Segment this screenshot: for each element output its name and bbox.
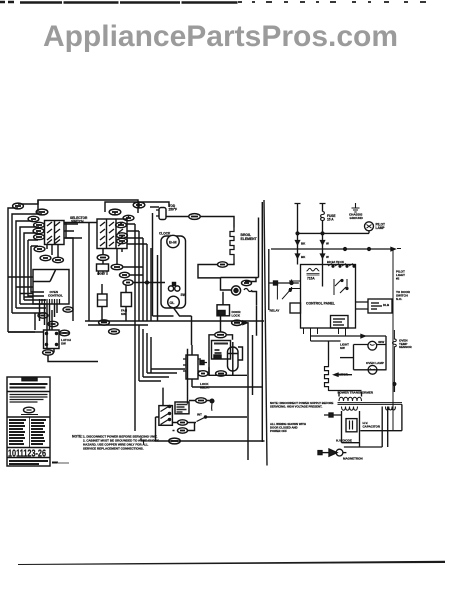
clock motor circle M1	[167, 235, 179, 247]
transformer secondary left	[342, 407, 358, 411]
svg-text:250°F: 250°F	[169, 208, 178, 212]
supply line L1	[295, 204, 301, 265]
drops from SW2 bottom	[103, 249, 122, 265]
wire: bottom bundle horizontals	[139, 369, 185, 381]
connector oval P10	[133, 202, 145, 208]
svg-text:SWITCH: SWITCH	[71, 220, 84, 224]
transformer secondary right	[386, 407, 396, 410]
terminal dot	[210, 399, 214, 403]
connector oval P5	[33, 228, 44, 233]
ignitor outer loop	[209, 335, 247, 376]
switch bank SW1 (selector)	[45, 221, 65, 245]
connector oval P4	[34, 222, 45, 227]
connector oval P19	[48, 321, 58, 326]
clock coil	[307, 268, 320, 271]
pilot lamp PL	[365, 222, 374, 231]
connector arrow L1-b	[296, 254, 300, 258]
right bus arrow	[391, 248, 395, 251]
svg-text:MAGNETRON: MAGNETRON	[343, 457, 363, 461]
svg-text:715A: 715A	[307, 277, 315, 281]
connector oval P8	[40, 255, 51, 260]
left strip components	[274, 281, 278, 285]
svg-text:CONTROL: CONTROL	[48, 294, 63, 298]
wire: extra nested bus	[28, 240, 44, 296]
schematic divider	[264, 200, 267, 466]
thermal fuse TOD	[150, 206, 159, 208]
connector oval P16	[189, 214, 201, 220]
igniter capsule	[228, 347, 239, 371]
wire: top row to bank 2	[105, 202, 139, 225]
motor coil symbol	[244, 289, 252, 292]
wire: bus bundle right of SW2	[135, 224, 151, 321]
svg-text:GROUND: GROUND	[350, 216, 364, 220]
svg-text:DLB: DLB	[383, 303, 390, 307]
wire mid joins	[124, 267, 166, 283]
svg-text:SERVICE REPLACEMENT CONNECTION: SERVICE REPLACEMENT CONNECTIONS.	[83, 447, 144, 451]
tiny text under legend	[57, 462, 69, 464]
connector oval P9	[53, 257, 64, 262]
wire ignitor bottom	[209, 367, 233, 376]
svg-text:SENSOR: SENSOR	[399, 345, 413, 349]
chassis ground	[352, 203, 360, 212]
legend table rows	[29, 417, 31, 447]
magnetron	[318, 451, 322, 455]
left edge terminals	[289, 281, 300, 289]
connector arrow L2-b	[321, 254, 325, 258]
ignitor right loop	[238, 347, 243, 360]
terminal dot stub	[329, 413, 333, 417]
watermark header text	[0, 20, 449, 54]
svg-text:W: W	[326, 255, 329, 259]
wire latch connections	[8, 313, 98, 362]
DLB relay box	[368, 299, 392, 313]
svg-text:SW: SW	[61, 342, 66, 346]
svg-text:IGNITOR: IGNITOR	[336, 373, 349, 377]
top scan line	[0, 1, 238, 4]
wire pilot feed	[298, 231, 370, 234]
door latch switch box	[44, 330, 60, 349]
connector arrow L1-a	[296, 241, 300, 245]
svg-text:LAMP: LAMP	[376, 226, 386, 230]
connector oval P15	[117, 238, 128, 243]
connector oval P28	[109, 329, 120, 334]
wire: verticals center bundle going down	[135, 255, 158, 431]
svg-text:15 A: 15 A	[327, 218, 334, 222]
connector oval P2	[36, 209, 48, 215]
stub right of legend	[52, 462, 58, 464]
connector oval P37	[169, 438, 181, 444]
connector oval P18	[38, 313, 48, 318]
wires from SW2	[127, 224, 147, 244]
switch bank SW2 (oven)	[97, 219, 127, 249]
connector oval P31	[198, 371, 208, 377]
wire: top feed to thermal fuse	[18, 200, 138, 213]
svg-text:SW: SW	[340, 346, 345, 350]
svg-text:#2: #2	[396, 277, 400, 281]
long bottom wire	[155, 440, 265, 442]
relay box B	[121, 293, 132, 307]
door lock relay	[186, 355, 198, 379]
clock motor loop	[152, 213, 154, 316]
svg-text:RELAY: RELAY	[270, 309, 280, 313]
broil element zigzag	[230, 228, 234, 263]
wire OL to lock relay	[191, 316, 193, 345]
transformer core	[338, 403, 403, 405]
connector oval P21	[43, 350, 54, 355]
contact pair	[168, 286, 173, 291]
svg-text:POWER OFF: POWER OFF	[270, 429, 287, 433]
svg-text:OVEN LAMP: OVEN LAMP	[366, 361, 384, 365]
left rail down	[268, 249, 270, 310]
connector oval P17	[218, 262, 228, 267]
svg-text:CONTROL PANEL: CONTROL PANEL	[306, 302, 335, 306]
legend table box	[7, 377, 50, 466]
connector oval P33	[232, 320, 243, 325]
wire from OL down	[153, 308, 192, 316]
connector oval P14	[117, 233, 128, 238]
wire bank1 to bank2 link	[64, 223, 97, 322]
connector oval P22	[60, 330, 70, 336]
svg-text:CLOCK: CLOCK	[159, 232, 171, 236]
connector oval P27	[99, 320, 110, 325]
oven temp sensor squiggle	[393, 330, 397, 384]
connector oval P20	[63, 307, 73, 312]
svg-text:NOTE:: NOTE:	[72, 435, 83, 439]
connector arrow L2-a	[321, 241, 325, 245]
right bus bottom	[360, 404, 402, 430]
main horizontal rail	[271, 248, 393, 250]
connector oval P3	[28, 216, 39, 221]
control box pins	[40, 299, 60, 304]
door switch label box	[175, 402, 189, 414]
small relay left of panel	[290, 303, 301, 313]
lamp 2	[368, 365, 377, 374]
svg-text:40W: 40W	[378, 340, 384, 344]
connector oval P36	[178, 428, 188, 433]
connector oval P34	[196, 398, 207, 403]
connector oval P7	[34, 246, 45, 251]
svg-text:N.O.: N.O.	[396, 297, 402, 301]
svg-text:H.V. DIODE: H.V. DIODE	[336, 439, 352, 443]
fuse coil	[321, 212, 325, 221]
svg-text:INT: INT	[197, 413, 202, 417]
wire from lock box	[221, 292, 224, 332]
svg-text:W: W	[326, 242, 329, 246]
wire from element to oval	[198, 263, 234, 278]
door lock motor DM	[231, 286, 240, 295]
node: top junction	[37, 200, 39, 214]
svg-text:SERVICING. HIGH VOLTAGE PRESEN: SERVICING. HIGH VOLTAGE PRESENT.	[270, 404, 322, 408]
door switch bank	[163, 349, 188, 406]
HV capacitor	[346, 419, 357, 432]
interlock switch	[197, 418, 205, 422]
wires door switch area	[156, 417, 197, 441]
light switch box	[102, 261, 104, 264]
wire: long horizontal collector	[85, 321, 264, 325]
lower lock box	[217, 305, 230, 316]
HV cap circuit	[342, 411, 360, 443]
panel bottom pins	[304, 328, 346, 341]
wire: outer left bus loop	[8, 208, 42, 332]
connector oval P6	[34, 234, 45, 239]
wire crossings left of control box	[8, 277, 33, 297]
wire bus verticals lower	[192, 330, 262, 460]
left arrow stub	[334, 373, 352, 376]
connector oval P13	[116, 222, 127, 227]
lamp box	[354, 336, 387, 370]
connector oval P25	[120, 272, 130, 277]
wires from SW1 right side	[64, 224, 82, 238]
connector oval P30	[216, 371, 227, 376]
drops from SW1 bottom	[47, 245, 58, 258]
wire bus right side	[247, 202, 262, 442]
connector oval P26	[123, 280, 133, 286]
terminal stub left	[200, 362, 207, 364]
wire sensor to transformer	[311, 341, 395, 392]
inner levers	[334, 279, 347, 295]
lamp left stub	[340, 357, 354, 359]
connector oval P23	[97, 255, 109, 261]
wires below control box	[40, 304, 58, 348]
ignitor module box	[212, 341, 231, 360]
connector oval P1	[13, 203, 24, 209]
control panel box	[301, 265, 356, 329]
connector oval P11	[109, 209, 121, 215]
legend oval	[24, 407, 35, 413]
svg-text:BK: BK	[301, 255, 306, 259]
oven light circle M2	[168, 296, 180, 308]
ignitor loop oval P29	[215, 332, 227, 338]
connector oval P24	[111, 264, 123, 269]
svg-text:ELEMENT: ELEMENT	[241, 237, 258, 241]
connector oval P32	[242, 280, 252, 285]
svg-text:CAPACITOR: CAPACITOR	[363, 424, 381, 428]
svg-text:OL: OL	[170, 301, 176, 305]
svg-text:BR BA TM CK: BR BA TM CK	[327, 260, 344, 264]
top row switches	[328, 264, 353, 267]
oven control box	[33, 270, 69, 305]
lamp circuit top wire	[311, 335, 387, 337]
sensor box	[331, 316, 349, 329]
svg-text:SW: SW	[121, 312, 126, 316]
ignitor zigzag	[325, 360, 329, 391]
wire relay feeds	[102, 284, 126, 321]
wire: nested bottom returns	[8, 300, 46, 332]
primary feeds	[329, 391, 362, 397]
lamp 1	[368, 341, 377, 350]
HV loop right	[344, 407, 388, 448]
svg-text:LOCK: LOCK	[232, 314, 241, 318]
door lock motor loop	[221, 278, 259, 306]
wire L2 inside panel	[322, 265, 324, 287]
svg-text:LIGHT: LIGHT	[97, 272, 106, 276]
connector oval P12	[123, 215, 134, 220]
svg-text:SW: SW	[181, 293, 186, 297]
svg-text:B-M: B-M	[169, 240, 177, 245]
supply line L2 with fuse	[320, 204, 326, 212]
bottom rule	[18, 561, 445, 565]
connector oval P35	[178, 420, 188, 425]
transformer primary	[339, 397, 362, 401]
svg-text:BK: BK	[301, 242, 306, 246]
relay box A	[98, 294, 108, 307]
wire to broil element	[166, 217, 234, 228]
left end ticks	[141, 438, 155, 444]
